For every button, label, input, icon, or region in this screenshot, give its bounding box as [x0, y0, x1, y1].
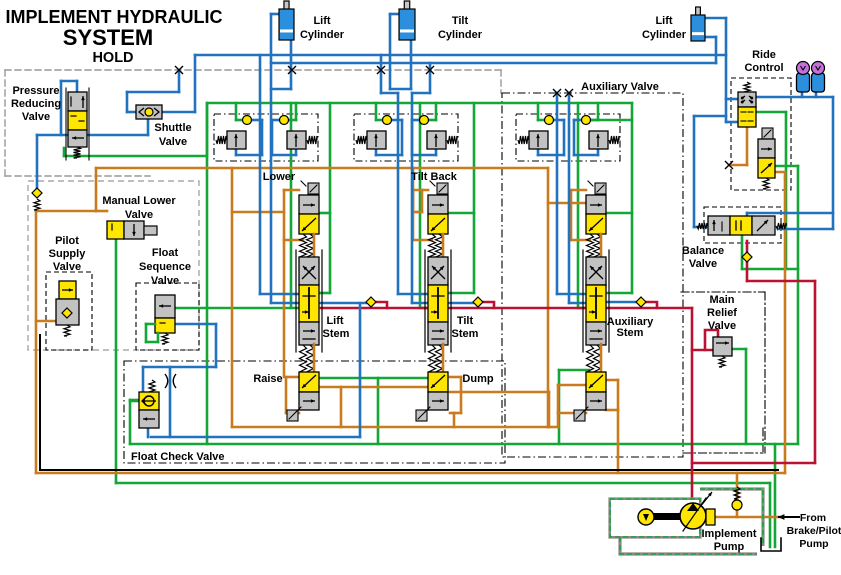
svg-text:Pilot: Pilot	[55, 235, 79, 247]
svg-text:Valve: Valve	[151, 275, 179, 287]
svg-text:Tilt Back: Tilt Back	[411, 171, 458, 183]
svg-text:Tilt: Tilt	[457, 315, 474, 327]
svg-text:Supply: Supply	[49, 248, 87, 260]
svg-text:Valve: Valve	[53, 261, 81, 273]
svg-text:Tilt: Tilt	[452, 15, 469, 27]
svg-text:Manual Lower: Manual Lower	[102, 195, 176, 207]
svg-text:Cylinder: Cylinder	[438, 29, 483, 41]
svg-text:Lift: Lift	[326, 315, 343, 327]
svg-text:Balance: Balance	[682, 245, 724, 257]
svg-text:Control: Control	[744, 62, 783, 74]
svg-text:SYSTEM: SYSTEM	[63, 25, 153, 50]
svg-text:Reducing: Reducing	[11, 98, 61, 110]
svg-text:Main: Main	[709, 294, 734, 306]
svg-text:IMPLEMENT HYDRAULIC: IMPLEMENT HYDRAULIC	[6, 7, 223, 27]
svg-text:Pump: Pump	[799, 538, 828, 550]
svg-text:Valve: Valve	[125, 209, 153, 221]
svg-text:Auxiliary Valve: Auxiliary Valve	[581, 81, 659, 93]
svg-text:HOLD: HOLD	[92, 50, 133, 66]
svg-text:Pump: Pump	[714, 541, 745, 553]
svg-text:Raise: Raise	[253, 373, 282, 385]
svg-text:Relief: Relief	[707, 307, 737, 319]
svg-text:Stem: Stem	[323, 328, 350, 340]
svg-text:Float Check Valve: Float Check Valve	[131, 451, 225, 463]
svg-text:Stem: Stem	[617, 327, 644, 339]
svg-text:Lift: Lift	[655, 15, 672, 27]
svg-text:From: From	[800, 512, 826, 524]
svg-text:Valve: Valve	[689, 258, 717, 270]
svg-text:Implement: Implement	[701, 528, 756, 540]
svg-text:Lower: Lower	[263, 171, 296, 183]
svg-text:Dump: Dump	[462, 373, 493, 385]
svg-text:Ride: Ride	[752, 49, 776, 61]
svg-text:Float: Float	[152, 247, 179, 259]
svg-text:Stem: Stem	[452, 328, 479, 340]
svg-text:Sequence: Sequence	[139, 261, 191, 273]
svg-text:Valve: Valve	[708, 320, 736, 332]
svg-text:Cylinder: Cylinder	[642, 29, 687, 41]
svg-text:Shuttle: Shuttle	[154, 122, 191, 134]
svg-text:Lift: Lift	[313, 15, 330, 27]
svg-text:Valve: Valve	[22, 111, 50, 123]
svg-text:Brake/Pilot: Brake/Pilot	[787, 525, 841, 537]
svg-text:Pressure: Pressure	[12, 85, 59, 97]
svg-text:Valve: Valve	[159, 136, 187, 148]
svg-text:Cylinder: Cylinder	[300, 29, 345, 41]
